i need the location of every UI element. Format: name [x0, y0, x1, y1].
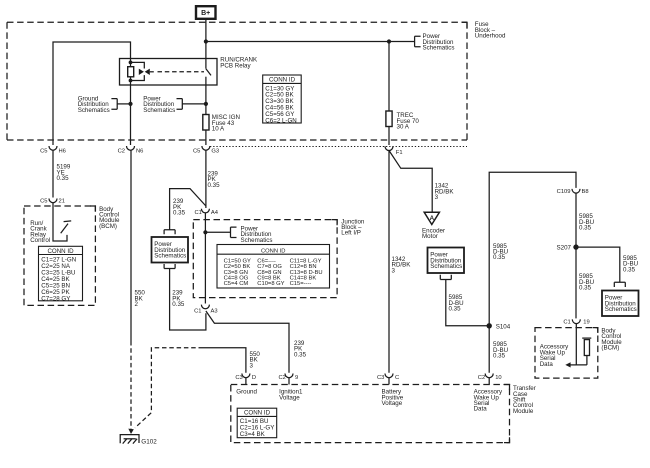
relay coil rectangle [128, 67, 134, 77]
svg-text:10 A: 10 A [212, 126, 225, 133]
BCM right corner tick [593, 328, 598, 333]
power distribution bracket (left) [177, 99, 183, 110]
transfer case CONN ID table [237, 408, 277, 438]
relay switch bottom wire [205, 77, 207, 85]
svg-text:2: 2 [135, 301, 139, 308]
wire N6 down (550 BK 2) [130, 150, 132, 341]
svg-text:PCB Relay: PCB Relay [220, 62, 251, 69]
svg-text:N6: N6 [136, 148, 143, 154]
power distribution schematics box (right) [602, 291, 639, 317]
wire F1 straight down to battery C [388, 151, 390, 373]
junction power dist bracket [231, 227, 237, 237]
svg-text:10: 10 [495, 375, 501, 381]
BCM switch wire (21 into module) [53, 203, 67, 241]
node junction power dist tap [203, 230, 207, 234]
svg-text:Schematics: Schematics [423, 45, 455, 52]
arrow left (accessory wake up serial data) [565, 362, 570, 367]
svg-text:9: 9 [295, 375, 298, 381]
power distribution schematics box (left) [152, 237, 189, 263]
node trunk/power-dist tee [204, 102, 208, 106]
BCM termination resistor [584, 340, 589, 356]
transfer case corner ticks [504, 385, 510, 443]
MISC IGN fuse 43 [203, 115, 209, 131]
BCM right dashed box [535, 328, 598, 379]
svg-text:30 A: 30 A [397, 124, 410, 131]
node S104 [487, 323, 492, 328]
connector C1 A3 [194, 305, 218, 315]
wire S207 down to C1 19 [575, 247, 577, 318]
TREC fuse 70 [386, 111, 392, 127]
svg-text:Module: Module [513, 408, 534, 415]
node coil branch top [129, 61, 133, 65]
fuse block CONN ID table [263, 75, 302, 124]
svg-text:Schematics: Schematics [605, 306, 637, 313]
wire from box down to S104 [446, 280, 489, 326]
wire to junction power dist bracket [205, 231, 230, 233]
svg-text:G102: G102 [141, 439, 157, 446]
node coil branch bottom [129, 79, 133, 83]
wire power dist to trunk [182, 103, 206, 105]
svg-text:C3: C3 [235, 375, 242, 381]
connector C3 C [377, 374, 399, 381]
wire coil bottom to N6 [130, 85, 132, 145]
BCM left CONN ID table [39, 246, 83, 302]
ground arrowhead [128, 429, 134, 434]
relay box RUN/CRANK PCB relay [120, 59, 218, 86]
strap bracket below left power dist box [164, 264, 175, 269]
pin stub ignition1 [288, 378, 290, 385]
svg-text:C3=4 BK: C3=4 BK [240, 431, 266, 438]
connector C3 D [235, 374, 256, 381]
wire C109 to S207 [575, 193, 577, 247]
BCM switch bar [64, 220, 72, 223]
svg-text:Motor: Motor [422, 233, 438, 240]
svg-text:S207: S207 [557, 245, 572, 252]
pin stub accessory [488, 378, 490, 385]
svg-text:C5: C5 [193, 148, 200, 154]
node S207 [573, 244, 578, 249]
svg-text:B8: B8 [582, 189, 589, 195]
relay switch: top contact wire end [205, 59, 207, 69]
svg-text:Underhood: Underhood [475, 33, 506, 40]
wire left horizontal to coil [53, 42, 131, 145]
wire ground pin up and left (550 BK 3) [203, 348, 246, 373]
svg-text:Schematics: Schematics [143, 107, 175, 114]
connector C5 G3 [193, 146, 219, 154]
power distribution schematics box (encoder branch) [428, 248, 465, 274]
svg-text:B+: B+ [201, 10, 210, 17]
svg-text:3: 3 [435, 194, 439, 201]
dashed wire N6 to G102 [130, 341, 132, 429]
svg-text:CONN ID: CONN ID [47, 248, 74, 255]
svg-text:0.35: 0.35 [172, 301, 185, 308]
encoder motor triangle [424, 212, 439, 224]
svg-text:(BCM): (BCM) [601, 345, 619, 352]
svg-text:H6: H6 [59, 148, 66, 154]
wire top horizontal to TREC and power dist ref [206, 41, 415, 43]
BCM termination resistor bar [582, 337, 591, 339]
svg-text:S104: S104 [496, 323, 511, 330]
pin stub ground [245, 378, 247, 385]
branch diagonal above A4 [170, 189, 206, 230]
wire below box down and right to A3 stub [170, 269, 206, 331]
svg-text:C1: C1 [194, 210, 201, 216]
junction block dashed box [193, 220, 337, 298]
svg-text:A: A [430, 215, 435, 222]
svg-text:3: 3 [392, 267, 396, 274]
svg-text:C15=----: C15=---- [290, 281, 312, 287]
svg-text:Ground: Ground [236, 389, 257, 396]
ground distribution bracket [111, 99, 117, 110]
pin stub battery [388, 378, 390, 385]
svg-text:C: C [395, 375, 399, 381]
wire TREC fuse to F1 [388, 127, 390, 146]
connector C1 A4 [194, 209, 218, 216]
svg-text:CONN ID: CONN ID [269, 77, 296, 84]
wire ground dist to coil wire [117, 103, 130, 105]
wire G3 down to A4 [205, 150, 207, 208]
resistor stub to wire [586, 356, 588, 365]
diode bowtie symbol [139, 69, 144, 75]
svg-text:C5: C5 [40, 148, 47, 154]
svg-text:C10=8 GY: C10=8 GY [257, 281, 284, 287]
svg-text:CONN ID: CONN ID [244, 410, 271, 417]
connector F1 [385, 146, 403, 156]
BCM left corner tick [90, 206, 95, 212]
svg-text:Voltage: Voltage [382, 400, 403, 407]
svg-text:Data: Data [474, 406, 488, 413]
svg-text:CONN ID: CONN ID [261, 248, 285, 254]
wire S207 branch right to power dist box [576, 247, 620, 282]
connector C1 19 [563, 319, 589, 325]
svg-text:C2: C2 [118, 148, 125, 154]
svg-text:A4: A4 [211, 210, 219, 216]
strap bracket above right power dist box [614, 282, 625, 287]
svg-text:0.35: 0.35 [579, 285, 592, 292]
svg-text:D: D [252, 375, 256, 381]
svg-text:C5=4 CM: C5=4 CM [224, 281, 249, 287]
connector C5 H6 [40, 146, 66, 154]
svg-text:0.35: 0.35 [493, 254, 506, 261]
wire H6 to C5/21 [52, 150, 54, 197]
svg-text:C2: C2 [278, 375, 285, 381]
junction block corner tick [332, 220, 338, 226]
svg-text:(BCM): (BCM) [99, 223, 117, 230]
svg-text:C7=28 GY: C7=28 GY [41, 295, 70, 302]
wire MISC fuse to G3 [205, 130, 207, 145]
svg-text:19: 19 [583, 320, 589, 326]
wire B+ down to relay switch [205, 19, 207, 59]
connector C2 9 [278, 374, 298, 381]
svg-text:G3: G3 [211, 148, 219, 154]
svg-text:Schematics: Schematics [154, 253, 186, 260]
svg-text:Voltage: Voltage [279, 394, 300, 401]
wire accessory trunk top corner [489, 172, 576, 373]
svg-text:Schematics: Schematics [430, 263, 462, 270]
svg-text:0.35: 0.35 [294, 351, 307, 358]
svg-text:C3: C3 [377, 375, 384, 381]
node: trunk / top horizontal tee [204, 39, 208, 43]
svg-text:0.35: 0.35 [623, 266, 636, 273]
BCM left dashed box [24, 206, 95, 305]
relay switch blade [206, 69, 211, 76]
dotted boundary line right of G3 [210, 146, 467, 148]
B+ terminal box [196, 6, 216, 19]
wire A3 diagonal to ignition1 [206, 311, 289, 373]
svg-text:0.35: 0.35 [173, 210, 186, 217]
svg-text:C6=2 L-GN: C6=2 L-GN [265, 117, 296, 124]
connector C2 10 [478, 374, 502, 381]
connector C109 B8 [557, 189, 589, 195]
svg-text:Data: Data [540, 361, 554, 368]
node coil/ground-dist tee [128, 102, 132, 106]
svg-text:0.35: 0.35 [579, 225, 592, 232]
coil parallel diode branch [131, 62, 145, 80]
strap bracket below encoder branch box [440, 275, 451, 280]
fuse block underhood dashed box [7, 22, 467, 140]
svg-text:C5: C5 [40, 198, 47, 204]
node: TREC branch tee [387, 39, 391, 43]
BCM switch blade [61, 224, 68, 234]
dashed link coil to switch [158, 71, 205, 73]
transfer case dashed box [231, 385, 510, 443]
svg-text:Schematics: Schematics [78, 107, 110, 114]
svg-text:3: 3 [250, 362, 254, 369]
ground symbol G102 [120, 435, 139, 444]
svg-text:Left I/P: Left I/P [341, 230, 361, 237]
svg-text:Control: Control [30, 237, 50, 244]
svg-text:F1: F1 [396, 150, 403, 156]
power distribution schematics bracket (top right) [415, 36, 421, 46]
svg-text:C1: C1 [563, 320, 570, 326]
svg-text:Schematics: Schematics [241, 237, 273, 244]
svg-text:C1: C1 [194, 309, 201, 315]
svg-text:C2: C2 [478, 375, 485, 381]
relay coil wire [130, 59, 132, 86]
svg-text:0.35: 0.35 [208, 182, 221, 189]
diode stub [150, 71, 154, 73]
connector C2 N6 [118, 146, 144, 154]
junction block CONN ID table [217, 245, 330, 289]
svg-text:21: 21 [59, 198, 65, 204]
fuse block corner tick [462, 22, 468, 28]
connector C5 21 [40, 198, 65, 204]
wire F1 to encoder branch diagonal [389, 151, 432, 213]
svg-text:A3: A3 [211, 309, 218, 315]
wire A4 into junction block [204, 213, 206, 304]
wire relay switch down to MISC fuse [205, 85, 207, 115]
wire C1 19 into BCM [576, 324, 587, 365]
wire TREC drop [388, 42, 390, 112]
svg-text:0.35: 0.35 [493, 353, 506, 360]
strap bracket above left power dist box [164, 230, 175, 235]
dashed ground wire to G102 [135, 348, 203, 428]
svg-text:C109: C109 [557, 189, 571, 195]
svg-text:0.35: 0.35 [449, 306, 462, 313]
svg-text:0.35: 0.35 [57, 175, 70, 182]
